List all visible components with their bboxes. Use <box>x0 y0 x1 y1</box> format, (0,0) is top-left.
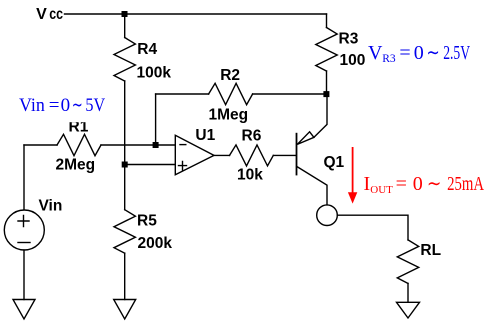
ground under RL <box>397 302 420 318</box>
svg-text:R3: R3 <box>339 31 359 48</box>
wire R3 bottom lead <box>326 71 328 94</box>
node junction R2/R3/emitter <box>323 91 329 97</box>
wire R2 right to R3 bottom junction <box>253 93 327 95</box>
svg-text:25mA: 25mA <box>447 173 484 195</box>
svg-text:V: V <box>36 6 47 23</box>
source Vin circle <box>4 210 44 250</box>
svg-text:1Meg: 1Meg <box>209 107 249 124</box>
source Vin minus sign <box>18 242 30 244</box>
svg-text:0: 0 <box>61 95 71 116</box>
svg-text:R6: R6 <box>242 127 262 144</box>
node junction R2 left / minus input <box>153 142 159 148</box>
wire R4 top lead <box>124 14 126 38</box>
op-amp minus marker <box>180 144 186 146</box>
node junction +input/R4/R5 <box>122 162 128 168</box>
wire base lead from R6 <box>273 154 296 156</box>
svg-text:∼: ∼ <box>72 95 83 116</box>
svg-text:U1: U1 <box>195 127 215 144</box>
svg-text:=: = <box>396 173 407 195</box>
svg-text:Vin: Vin <box>19 95 45 116</box>
transistor Q1 base bar <box>296 134 298 175</box>
transistor Q1 emitter stub with open arrowhead <box>297 132 314 145</box>
svg-text:0: 0 <box>413 173 423 195</box>
white cover over R1 top <box>60 93 110 122</box>
svg-text:2Meg: 2Meg <box>56 157 96 174</box>
op-amp plus marker <box>179 162 187 170</box>
wire R2 left horizontal <box>156 93 209 95</box>
svg-text:0: 0 <box>414 42 424 64</box>
resistor R3 <box>316 28 337 72</box>
svg-text:=: = <box>49 95 60 116</box>
svg-text:Vin: Vin <box>39 197 63 214</box>
resistor R6 <box>230 145 274 166</box>
svg-text:cc: cc <box>49 6 63 23</box>
svg-text:5V: 5V <box>85 95 105 116</box>
wire R2 left lead <box>155 94 157 145</box>
wire op-amp output <box>214 154 230 156</box>
svg-text:2.5V: 2.5V <box>443 42 470 64</box>
svg-text:R2: R2 <box>220 67 240 84</box>
source Vin plus sign <box>18 216 29 227</box>
ground under Vin <box>13 300 35 320</box>
wire R1 to op-amp minus input <box>101 144 175 146</box>
svg-text:10k: 10k <box>237 167 263 184</box>
svg-text:RL: RL <box>420 242 441 259</box>
wire R1 row / inverting input <box>24 144 57 146</box>
resistor R5 <box>114 210 135 254</box>
node output bubble <box>317 205 338 226</box>
wire R3 top lead <box>326 14 328 28</box>
svg-text:OUT: OUT <box>370 184 393 196</box>
arrow IOUT (red) <box>348 147 357 204</box>
svg-text:∼: ∼ <box>426 42 439 64</box>
wire plus input <box>125 164 176 166</box>
resistor RL <box>397 240 418 284</box>
svg-text:V: V <box>368 42 383 64</box>
wire collector diagonal <box>297 167 327 205</box>
svg-text:R4: R4 <box>137 41 157 58</box>
wire Vin source top lead <box>23 145 25 210</box>
wire output to RL <box>337 215 408 240</box>
wire R5 bottom lead <box>124 253 126 299</box>
svg-text:200k: 200k <box>138 235 173 252</box>
resistor R2 <box>209 83 253 104</box>
resistor R4 <box>114 38 135 82</box>
svg-text:100: 100 <box>340 52 366 69</box>
svg-text:∼: ∼ <box>427 173 442 195</box>
svg-text:100k: 100k <box>137 65 172 82</box>
wire Vcc top rail <box>65 13 327 15</box>
svg-text:I: I <box>364 173 371 195</box>
op-amp U1 triangle <box>175 135 214 175</box>
wire Vin source bottom lead <box>23 250 25 300</box>
resistor R1 <box>57 134 101 155</box>
wire emitter vertical + 45deg bend <box>314 94 327 137</box>
svg-text:Q1: Q1 <box>324 154 345 171</box>
svg-text:=: = <box>399 42 410 64</box>
wire R4 bottom to R5 top (main vertical) <box>124 81 126 210</box>
svg-text:R3: R3 <box>382 53 396 65</box>
wire RL bottom lead <box>407 283 409 302</box>
svg-text:R5: R5 <box>137 213 157 230</box>
node junction Vcc/R4 <box>122 11 128 17</box>
ground under R5 <box>114 300 136 320</box>
